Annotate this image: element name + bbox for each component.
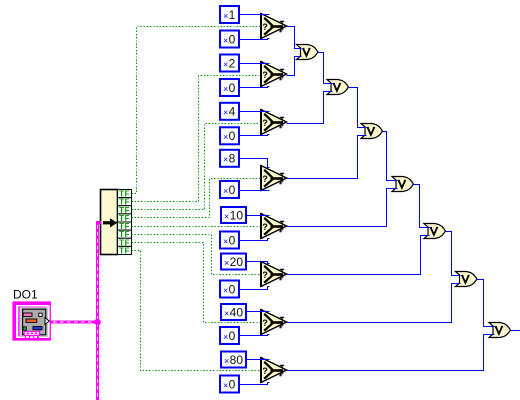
or function V3	[361, 124, 382, 139]
wire: x80 constant to select S8 t input	[247, 359, 270, 361]
wire: x0 constant to select S8 f input	[240, 383, 270, 385]
wire: x4 constant to select S3 t input	[240, 111, 270, 113]
wire: x0 constant to select S1 f input	[240, 39, 270, 40]
svg-text:?: ?	[262, 22, 267, 32]
or function V6	[456, 272, 477, 287]
boolean wire: TF cell 5 to select S5 s input	[132, 226, 261, 228]
unbundle TF output cells	[118, 190, 132, 256]
wire: or V4 output to or V5 input	[414, 185, 430, 228]
or function V2	[327, 80, 348, 95]
svg-text:×0: ×0	[223, 377, 236, 391]
wire: select S4 output to or gate input	[287, 136, 367, 179]
svg-text:×2: ×2	[223, 56, 236, 70]
svg-text:?: ?	[262, 174, 267, 184]
numeric constant x0 (false input of select 4)	[220, 181, 239, 198]
svg-text:×0: ×0	[223, 183, 236, 197]
svg-text:?: ?	[262, 270, 267, 280]
numeric constant x0 (false input of select 7)	[220, 327, 239, 344]
numeric constant x1 (true input of select 1)	[220, 6, 239, 23]
wire: x0 constant to select S3 f input	[240, 135, 270, 136]
wire: x0 constant to select S7 f input	[240, 335, 270, 336]
wire: select S7 output to or gate input	[287, 284, 461, 323]
numeric constant x40 (true input of select 7)	[221, 304, 246, 320]
svg-text:×10: ×10	[224, 208, 243, 222]
wire: select S1 output to or gate input	[287, 27, 302, 49]
wire: x0 constant to select S5 f input	[240, 239, 270, 241]
numeric constant x0 (false input of select 8)	[220, 376, 239, 393]
svg-text:×0: ×0	[223, 129, 236, 143]
svg-text:×40: ×40	[224, 305, 243, 319]
boolean wire: TF cell 2 to select S2 s input	[132, 76, 261, 202]
numeric constant x0 (false input of select 5)	[220, 232, 239, 249]
numeric constant x0 (false input of select 1)	[220, 31, 239, 48]
or function V7	[489, 323, 510, 338]
wire: x40 constant to select S7 t input	[247, 311, 270, 313]
wire: select S6 output to or gate input	[287, 236, 430, 275]
wire: x0 constant to select S2 f input	[240, 87, 270, 88]
wire: x10 constant to select S5 t input	[247, 215, 270, 217]
svg-text:?: ?	[262, 318, 267, 328]
wire: x0 constant to select S4 f input	[240, 190, 270, 192]
DAQmx wire junction dot	[94, 319, 101, 326]
numeric constant x4 (true input of select 3)	[220, 103, 239, 120]
wire: or V6 output to or V7 input	[477, 280, 495, 327]
wire: x2 constant to select S2 t input	[240, 63, 270, 65]
svg-text:×0: ×0	[223, 329, 236, 343]
wire: x1 constant to select S1 t input	[240, 14, 270, 16]
wire: or V3 output to or V4 input	[383, 132, 398, 181]
svg-text:×0: ×0	[223, 233, 236, 247]
wire: select S8 output to or gate input	[287, 335, 495, 371]
boolean wire: TF cell 1 to select S1 s input	[132, 27, 261, 194]
select function S1	[260, 13, 287, 39]
svg-text:×8: ×8	[223, 152, 236, 166]
wire: select S2 output to or gate input	[287, 57, 302, 76]
svg-text:?: ?	[262, 70, 267, 80]
svg-text:×0: ×0	[223, 282, 236, 296]
boolean wire: TF cell 8 to select S8 s input	[132, 251, 261, 371]
wire: x0 constant to select S6 f input	[240, 287, 270, 290]
select function S5	[260, 213, 287, 239]
wire: select S5 output to or gate input	[287, 189, 398, 227]
boolean wire: TF cell 7 to select S7 s input	[132, 243, 261, 323]
unbundle input arrow	[103, 218, 117, 227]
svg-text:TF: TF	[119, 246, 130, 255]
numeric constant x10 (true input of select 5)	[221, 207, 246, 223]
numeric constant x0 (false input of select 2)	[220, 79, 239, 96]
select function S6	[260, 261, 287, 287]
svg-text:?: ?	[262, 366, 267, 376]
svg-text:×1: ×1	[223, 8, 236, 22]
unbundle node body	[101, 190, 118, 255]
numeric constant x2 (true input of select 2)	[220, 55, 239, 72]
label DO1	[13, 288, 38, 302]
DAQmx wire: junction to unbundle and down (vertical)	[96, 221, 101, 400]
DAQmx wire: DO1 to junction (horizontal)	[51, 320, 100, 323]
select function S7	[260, 309, 287, 335]
boolean wire: TF cell 6 to select S6 s input	[132, 235, 261, 275]
wire: or V2 output to or V3 input	[349, 88, 367, 128]
or function V4	[392, 177, 413, 192]
svg-text:×4: ×4	[223, 105, 236, 119]
svg-text:×80: ×80	[224, 353, 243, 367]
boolean wire: TF cell 4 to select S4 s input	[132, 179, 261, 218]
svg-text:DO1: DO1	[13, 288, 38, 302]
numeric constant x8 (true input of select 4)	[220, 150, 239, 167]
svg-text:?: ?	[262, 222, 267, 232]
wire: or V7 output to right edge	[511, 330, 520, 332]
select function S2	[260, 61, 287, 87]
numeric constant x20 (true input of select 6)	[221, 254, 246, 270]
numeric constant x0 (false input of select 3)	[220, 127, 239, 144]
wire: x8 constant to select S4 t input	[240, 159, 270, 168]
wire: select S3 output to or gate input	[287, 92, 333, 124]
DAQmx channel constant DO1 icon	[12, 301, 51, 340]
boolean wire: TF cell 3 to select S3 s input	[132, 124, 261, 210]
numeric constant x0 (false input of select 6)	[220, 281, 239, 298]
or function V1	[297, 45, 318, 60]
svg-text:×0: ×0	[223, 81, 236, 95]
select function S4	[260, 165, 287, 191]
select function S8	[260, 357, 287, 383]
or function V5	[424, 224, 445, 239]
wire: or V1 output to or V2 input	[318, 53, 333, 84]
wire: x20 constant to select S6 t input	[247, 262, 270, 264]
svg-text:×0: ×0	[223, 32, 236, 46]
wire: or V5 output to or V6 input	[446, 232, 461, 276]
svg-text:×20: ×20	[224, 255, 243, 269]
select function S3	[260, 109, 287, 135]
numeric constant x80 (true input of select 8)	[221, 352, 246, 368]
svg-text:?: ?	[262, 118, 267, 128]
